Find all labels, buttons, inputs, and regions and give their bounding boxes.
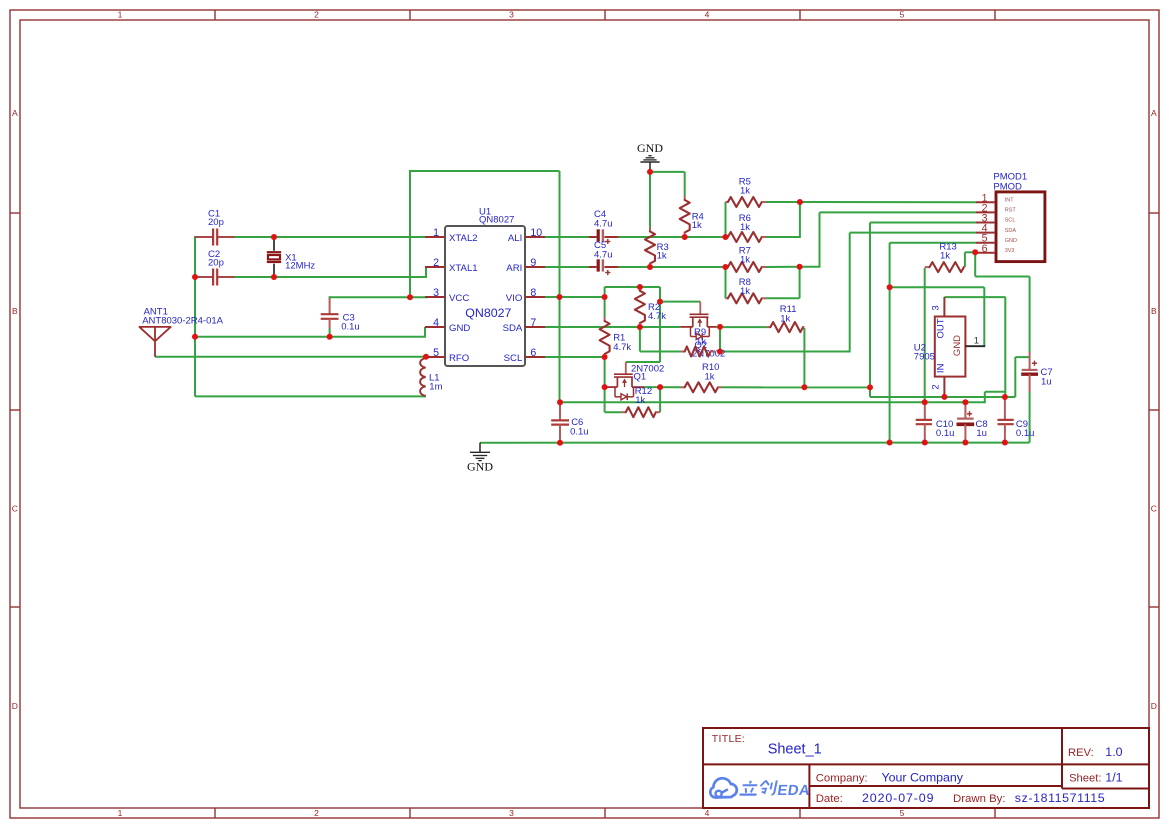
svg-text:RST: RST — [1005, 208, 1017, 214]
svg-text:2: 2 — [433, 257, 439, 269]
capacitor C1 — [195, 209, 235, 246]
capacitor C9 — [998, 398, 1035, 443]
svg-text:OUT: OUT — [936, 318, 947, 338]
svg-text:sz-1811571115: sz-1811571115 — [1015, 791, 1105, 805]
junction dots — [192, 169, 1008, 446]
svg-text:Q1: Q1 — [634, 372, 647, 383]
resistor R5 — [726, 177, 767, 208]
svg-text:REV:: REV: — [1068, 747, 1094, 759]
svg-text:Date:: Date: — [816, 793, 843, 805]
U1 pins left — [425, 227, 545, 364]
svg-text:Drawn By:: Drawn By: — [953, 793, 1006, 805]
title block — [703, 728, 1149, 808]
svg-text:6: 6 — [530, 347, 536, 359]
svg-text:4.7k: 4.7k — [613, 342, 631, 353]
svg-text:1: 1 — [118, 10, 123, 20]
svg-text:C: C — [1151, 504, 1157, 514]
svg-text:1: 1 — [118, 808, 123, 818]
resistor R10 — [681, 362, 722, 392]
wire node to U2 IN — [870, 387, 1005, 397]
IC U1 QN8027 — [445, 207, 525, 367]
wire R9 node to PMOD pin4 — [720, 233, 976, 353]
svg-text:7905: 7905 — [914, 352, 935, 363]
svg-text:1: 1 — [974, 335, 979, 346]
svg-text:GND: GND — [467, 460, 493, 474]
resistor R3 — [645, 228, 669, 268]
wire C9 node to C7 top — [1005, 357, 1030, 397]
svg-text:D: D — [12, 701, 18, 711]
wire GND row to U2 pin1 — [890, 287, 985, 346]
svg-text:4.7u: 4.7u — [594, 250, 613, 261]
wire PMOD pin3 to node — [870, 223, 976, 388]
wire SCL net — [545, 356, 605, 358]
svg-text:1k: 1k — [740, 286, 750, 297]
crystal X1 — [267, 237, 316, 277]
svg-text:2020-07-09: 2020-07-09 — [862, 791, 934, 805]
wire Q2 source to R11/R9 — [716, 327, 767, 352]
svg-text:VCC: VCC — [449, 293, 469, 304]
svg-text:PMOD: PMOD — [993, 181, 1022, 192]
wire R1 top lead-in — [604, 296, 606, 317]
svg-text:SCL: SCL — [504, 353, 523, 364]
svg-text:12MHz: 12MHz — [285, 260, 315, 271]
wire L1 bottom return — [195, 395, 426, 397]
svg-text:A: A — [12, 108, 18, 118]
capacitor C3 — [321, 298, 360, 332]
svg-text:EDA: EDA — [776, 783, 811, 799]
resistor R11 — [767, 304, 805, 332]
svg-text:0.1u: 0.1u — [1016, 428, 1035, 439]
U2 pin 1 (GND) — [965, 335, 985, 346]
ground symbol (top) — [637, 141, 663, 172]
capacitor C7 (polarized) — [1021, 352, 1052, 392]
wire R13 left drop — [924, 268, 926, 402]
wire VCC net — [330, 171, 560, 402]
svg-text:GND: GND — [1005, 238, 1017, 244]
inductor L1 — [420, 358, 442, 396]
regulator U2 7905 — [914, 317, 966, 377]
U2 pin 2 (IN) — [931, 377, 945, 397]
svg-text:1k: 1k — [740, 222, 750, 233]
svg-text:20p: 20p — [208, 258, 224, 269]
svg-text:GND: GND — [449, 323, 470, 334]
capacitor C5 (polarized) — [589, 240, 619, 275]
svg-text:6: 6 — [982, 243, 988, 255]
wire antenna to RFO — [155, 356, 426, 358]
svg-text:1k: 1k — [740, 185, 750, 196]
transistor Q2 2N7002 — [680, 302, 725, 360]
wire VIO net — [545, 296, 605, 298]
svg-text:20p: 20p — [208, 217, 224, 228]
wire VIO to R1/R2 branch — [605, 287, 660, 362]
svg-text:5: 5 — [900, 808, 905, 818]
wire Q1 drain / R10 / SCLK row — [644, 386, 870, 388]
wire bypass row L2 — [560, 392, 1005, 403]
svg-text:1/1: 1/1 — [1105, 770, 1122, 784]
wire R8 parallel loop — [726, 266, 800, 298]
resistor R9 — [681, 347, 715, 357]
capacitor C2 — [195, 249, 235, 285]
resistor R12 — [621, 386, 660, 417]
svg-text:1.0: 1.0 — [1105, 745, 1122, 759]
svg-text:4.7k: 4.7k — [648, 311, 666, 322]
svg-text:4: 4 — [705, 10, 710, 20]
svg-text:3V3: 3V3 — [1005, 248, 1015, 254]
svg-text:C: C — [12, 504, 18, 514]
svg-text:1u: 1u — [976, 428, 987, 439]
svg-text:ARI: ARI — [506, 263, 522, 274]
capacitor C10 — [916, 403, 955, 443]
svg-text:ANT8030-2R4-01A: ANT8030-2R4-01A — [142, 316, 223, 327]
resistor R6 — [722, 213, 767, 242]
svg-text:D: D — [1151, 701, 1157, 711]
svg-text:1k: 1k — [692, 220, 702, 231]
antenna ANT1 — [139, 306, 223, 356]
svg-text:7: 7 — [530, 317, 536, 329]
svg-text:9: 9 — [530, 257, 536, 269]
svg-text:XTAL1: XTAL1 — [449, 263, 478, 274]
svg-text:1k: 1k — [657, 251, 667, 262]
svg-text:10: 10 — [530, 227, 542, 239]
resistor R8 — [726, 277, 767, 303]
transistor Q1 2N7002 — [605, 362, 665, 400]
svg-text:5: 5 — [433, 347, 439, 359]
svg-text:2: 2 — [314, 10, 319, 20]
wire U2 OUT riser to C9 node — [944, 297, 1005, 397]
wire XTAL1 net (C2/X1 to U1 pin2) — [235, 267, 429, 278]
svg-text:RFO: RFO — [449, 353, 469, 364]
svg-text:SCL: SCL — [1005, 218, 1016, 224]
wire ground rail — [480, 392, 1030, 443]
svg-text:0.1u: 0.1u — [341, 321, 360, 332]
svg-text:1u: 1u — [1041, 376, 1052, 387]
capacitor C6 — [551, 403, 588, 443]
wire ALI net — [545, 202, 976, 238]
resistor R2 — [635, 287, 666, 327]
wire ARI net — [545, 266, 800, 268]
wire SCL to Q1 source / R12 left — [605, 356, 621, 412]
wire R12 riser — [659, 386, 661, 412]
svg-text:1k: 1k — [705, 371, 715, 382]
svg-text:B: B — [12, 306, 18, 316]
svg-text:4: 4 — [433, 317, 439, 329]
U2 pin 3 (OUT) — [931, 297, 945, 316]
resistor R1 — [600, 317, 632, 357]
resistor R4 — [680, 196, 704, 237]
svg-text:2: 2 — [314, 808, 319, 818]
svg-text:3: 3 — [509, 10, 514, 20]
wire Q1 gate — [626, 361, 660, 363]
svg-text:8: 8 — [530, 287, 536, 299]
capacitor C4 (polarized) — [589, 209, 619, 244]
wire XTAL2 net (C1/X1 to U1 pin1) — [195, 236, 425, 396]
svg-text:TITLE:: TITLE: — [712, 733, 745, 745]
svg-text:A: A — [1151, 108, 1157, 118]
svg-text:2: 2 — [931, 384, 942, 389]
connector PMOD1 — [976, 172, 1045, 262]
svg-text:1m: 1m — [429, 382, 442, 393]
svg-text:SDA: SDA — [1005, 228, 1017, 234]
ground symbol (bottom) — [467, 443, 493, 474]
wire R11 riser — [803, 328, 805, 387]
svg-text:1k: 1k — [740, 254, 750, 265]
svg-text:Your Company: Your Company — [882, 770, 964, 784]
svg-text:GND: GND — [637, 141, 663, 155]
svg-text:1: 1 — [433, 227, 439, 239]
resistor R7 — [722, 246, 767, 273]
svg-text:QN8027: QN8027 — [465, 306, 511, 320]
wire 3V3 net — [965, 252, 1030, 352]
wire SDA net — [545, 326, 680, 328]
svg-text:3: 3 — [509, 808, 514, 818]
svg-text:IN: IN — [936, 363, 947, 373]
svg-text:SDA: SDA — [503, 323, 523, 334]
svg-text:1k: 1k — [940, 251, 950, 262]
svg-text:5: 5 — [900, 10, 905, 20]
wire Q2 drain branch — [660, 301, 700, 303]
svg-text:Company:: Company: — [816, 772, 868, 784]
svg-text:B: B — [1151, 306, 1157, 316]
svg-text:1k: 1k — [780, 313, 790, 324]
wire GND top to R3/R4 — [650, 172, 685, 228]
svg-text:3: 3 — [433, 287, 439, 299]
wire R7R8 to PMOD pin2 — [800, 212, 976, 267]
wire R5 right — [766, 201, 800, 203]
svg-text:ALI: ALI — [508, 233, 522, 244]
svg-text:0.1u: 0.1u — [570, 427, 589, 438]
svg-text:GND: GND — [952, 335, 963, 356]
wire GND pin4 of U1 — [195, 327, 428, 338]
svg-text:0.1u: 0.1u — [936, 428, 955, 439]
svg-text:QN8027: QN8027 — [479, 214, 514, 225]
capacitor C8 (polarized) — [957, 403, 988, 443]
svg-text:Sheet_1: Sheet_1 — [768, 742, 822, 758]
wire PMOD pin5 GND drop — [890, 243, 976, 443]
EasyEDA (LCEDA) logo — [710, 778, 811, 799]
wire R5 riser — [725, 202, 727, 238]
svg-text:3: 3 — [931, 305, 942, 310]
svg-text:XTAL2: XTAL2 — [449, 233, 478, 244]
svg-text:Sheet:: Sheet: — [1069, 772, 1101, 784]
svg-text:INT: INT — [1005, 198, 1015, 204]
svg-text:4: 4 — [705, 808, 710, 818]
svg-text:1k: 1k — [635, 395, 645, 406]
svg-text:VIO: VIO — [506, 293, 523, 304]
resistor R13 — [925, 241, 965, 272]
svg-text:4.7u: 4.7u — [594, 218, 613, 229]
wire R9 left branch from SDA — [640, 328, 681, 352]
